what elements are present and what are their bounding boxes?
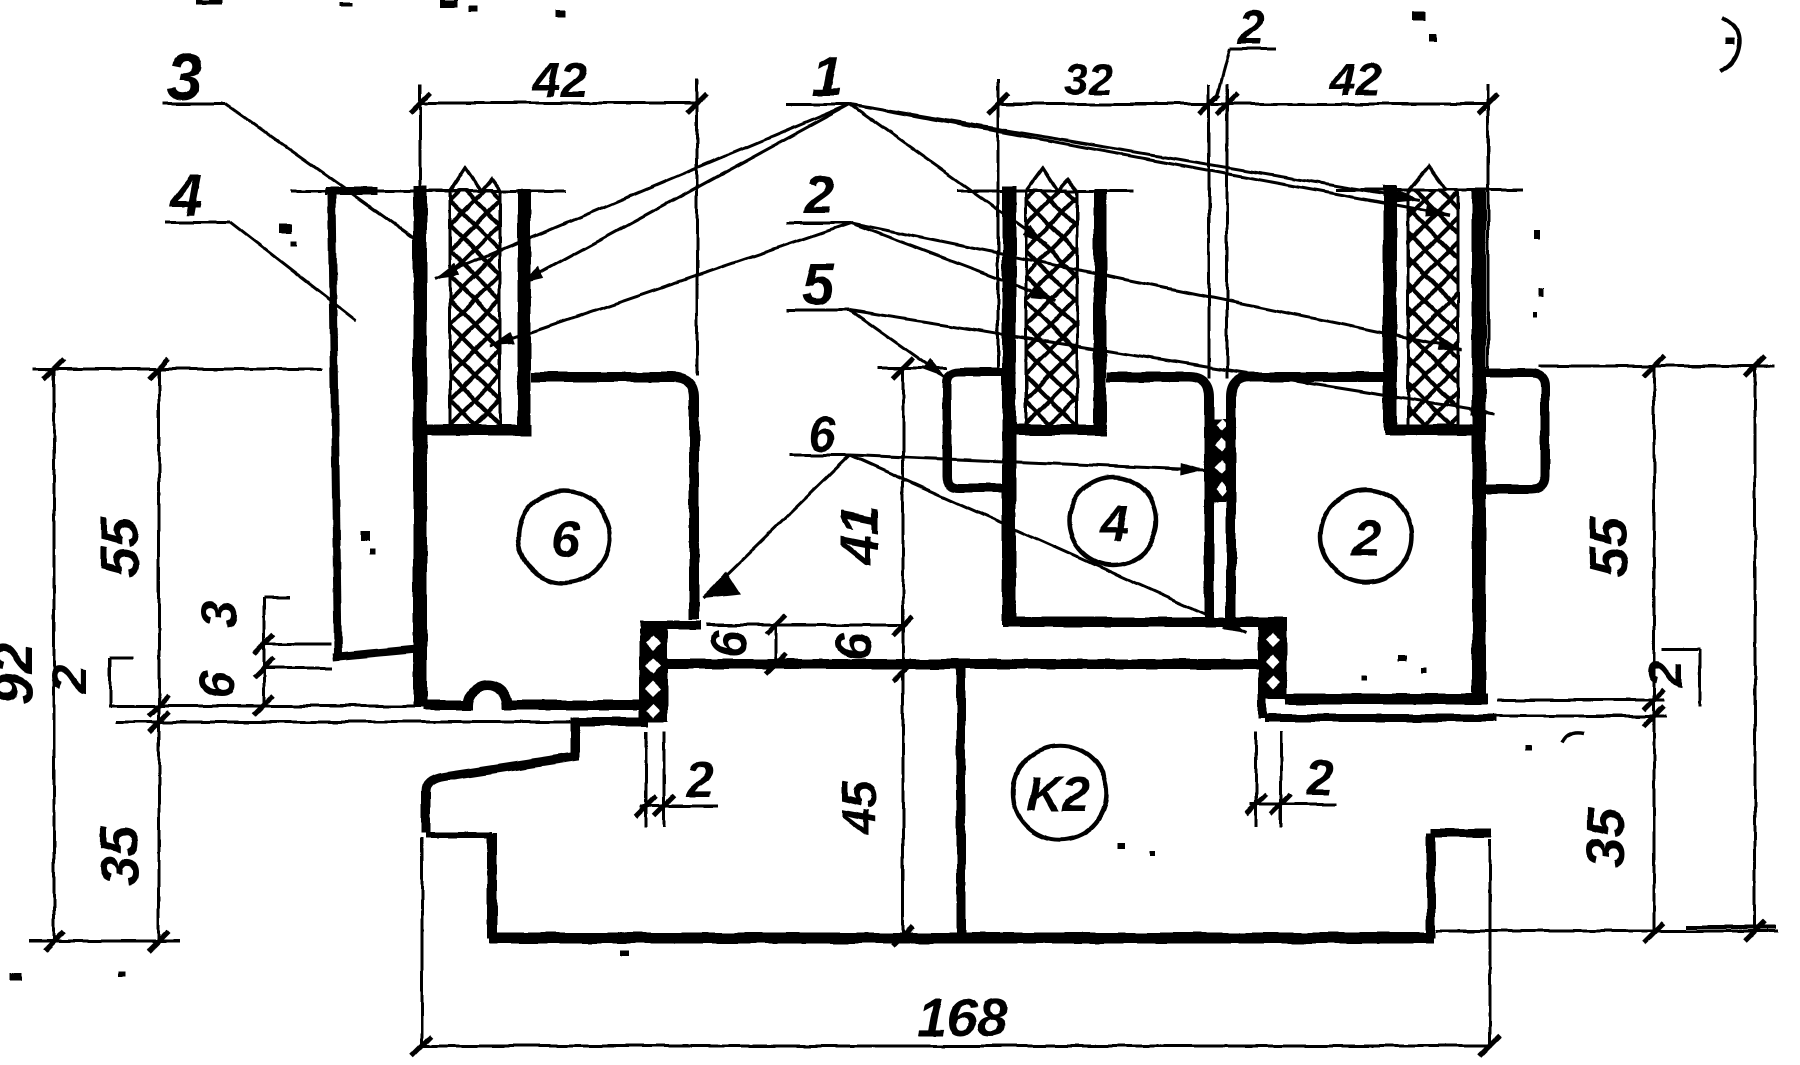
dim 6 at sash 6 rebate — [701, 615, 786, 674]
squiggle top right — [1720, 18, 1740, 72]
svg-text:92: 92 — [0, 643, 44, 705]
sill K2 foot — [426, 832, 492, 838]
sill K2 divider line — [957, 667, 966, 938]
sill K2 bottom edge — [489, 933, 1434, 944]
right bracket label 2 — [1640, 649, 1700, 707]
svg-text:6: 6 — [551, 511, 581, 569]
svg-text:2: 2 — [685, 752, 714, 808]
svg-text:32: 32 — [1064, 55, 1113, 104]
svg-text:35: 35 — [1576, 807, 1636, 868]
sash 6 bottom edge with drip notch — [423, 685, 642, 705]
svg-text:6: 6 — [826, 632, 882, 661]
sill platform top — [664, 659, 1258, 669]
sill top surface left — [573, 718, 648, 727]
wire: glass top line right sash — [1336, 189, 1523, 192]
label 6 with leader fan — [703, 406, 1250, 639]
sash 4 bottom bar — [1003, 617, 1287, 627]
svg-text:2: 2 — [803, 165, 834, 225]
glazing rebate cap sash 2 — [1384, 425, 1486, 436]
svg-text:35: 35 — [90, 825, 150, 886]
small dim 2 right gasket — [1246, 731, 1337, 827]
gasket H2 (crosshatched) — [1026, 168, 1077, 426]
sash 6 bottom rebate cap — [640, 621, 701, 630]
svg-text:4: 4 — [169, 163, 202, 228]
sash 2 left edge and top — [1231, 377, 1383, 617]
label 4 with leader — [165, 163, 356, 320]
left dimension stack 92/55/2/35 — [0, 359, 575, 951]
circled label 4 — [1069, 477, 1157, 565]
dimension 168 bottom — [412, 838, 1500, 1056]
sash 2 overlap lip right — [1484, 373, 1545, 489]
svg-text:K2: K2 — [1026, 766, 1090, 822]
gasket G1 under sash 6 (crosshatched) — [641, 629, 666, 722]
svg-text:45: 45 — [834, 780, 887, 836]
dimension 32 — [988, 55, 1219, 370]
middle dimension stack 41/6/45 — [706, 358, 947, 946]
sash 2 bottom edge — [1286, 694, 1488, 705]
sash 4 overlap lip — [947, 372, 1007, 488]
sill top surface right — [1264, 714, 1497, 722]
svg-text:1: 1 — [812, 44, 843, 107]
dimension 42 left — [410, 54, 707, 375]
label 2 top (gap between sashes) — [1216, 2, 1276, 100]
svg-text:2: 2 — [1640, 660, 1693, 688]
svg-text:42: 42 — [532, 54, 588, 108]
svg-text:2: 2 — [1237, 2, 1265, 55]
label 5 with leader fan — [787, 252, 1496, 419]
label 1 with leader fan — [432, 44, 1451, 290]
wire: glass top line left sash — [291, 190, 566, 193]
svg-text:55: 55 — [90, 516, 150, 577]
svg-text:42: 42 — [1329, 53, 1382, 105]
wire: glass top line middle sash — [958, 190, 1134, 193]
gasket H1 (crosshatched) — [450, 168, 500, 426]
sash 4 top and right edge — [1107, 377, 1209, 617]
label 2 with leader fan — [488, 165, 1463, 355]
glazing bead wall sash 4 — [1094, 189, 1107, 431]
svg-text:168: 168 — [917, 988, 1007, 1048]
dimension 42 right — [1209, 53, 1498, 378]
svg-text:55: 55 — [1579, 516, 1639, 577]
left small dims 3 and 6 — [189, 598, 333, 715]
glass pane / sash 6 left edge — [413, 186, 427, 705]
right dimension stack 55/2/35 — [1436, 356, 1778, 943]
label 3 with leader — [163, 40, 420, 242]
svg-text:3: 3 — [166, 40, 203, 114]
svg-text:2: 2 — [1351, 510, 1381, 568]
svg-text:6: 6 — [189, 670, 245, 699]
small dim 2 left gasket — [636, 731, 718, 827]
svg-text:4: 4 — [1099, 495, 1129, 553]
sill K2 left profile — [426, 718, 575, 833]
circled label K2 — [1013, 746, 1107, 840]
gasket G2 under sash 2 (crosshatched) — [1261, 627, 1285, 718]
svg-text:6: 6 — [701, 629, 757, 658]
svg-text:2: 2 — [41, 665, 97, 694]
sash 2 right wall edge — [1472, 189, 1486, 699]
svg-text:2: 2 — [1305, 750, 1334, 806]
sash 6 top and right edge — [531, 377, 694, 619]
sill K2 right notch — [1431, 833, 1492, 938]
gasket between sashes (crosshatched) — [1212, 418, 1232, 502]
svg-text:6: 6 — [808, 406, 837, 462]
board 4 (vertical trim board) — [326, 191, 417, 657]
svg-text:5: 5 — [802, 252, 835, 317]
circled label 2 — [1320, 490, 1412, 582]
glass pane / sash 4 left edge — [1002, 186, 1016, 625]
small hook mark right — [1562, 733, 1584, 743]
svg-text:41: 41 — [830, 505, 890, 566]
glass pane / sash 2 glazing bar — [1383, 186, 1397, 431]
left bracket label 2 — [41, 658, 133, 708]
gasket H3 (crosshatched) — [1408, 166, 1458, 426]
glazing rebate cap sash 4 — [1002, 425, 1107, 436]
glazing bead wall sash 6 — [518, 189, 531, 431]
circled label 6 — [518, 491, 610, 583]
glazing rebate cap sash 6 — [413, 425, 531, 436]
svg-text:3: 3 — [191, 600, 247, 628]
